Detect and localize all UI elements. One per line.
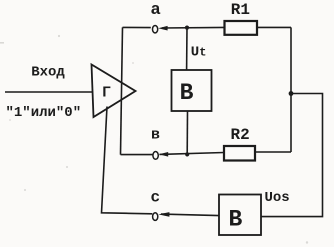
svg-text:Вход: Вход [31, 65, 65, 81]
svg-text:R2: R2 [231, 126, 250, 144]
svg-text:Uos: Uos [265, 190, 290, 206]
svg-text:Ut: Ut [191, 45, 207, 61]
svg-text:"1"или"0": "1"или"0" [6, 105, 82, 121]
svg-text:В: В [229, 206, 243, 232]
svg-text:R1: R1 [231, 1, 250, 19]
svg-text:в: в [151, 127, 160, 144]
svg-text:а: а [151, 1, 161, 20]
svg-text:Г: Г [102, 85, 111, 102]
svg-text:В: В [180, 80, 194, 106]
svg-text:с: с [151, 188, 161, 206]
